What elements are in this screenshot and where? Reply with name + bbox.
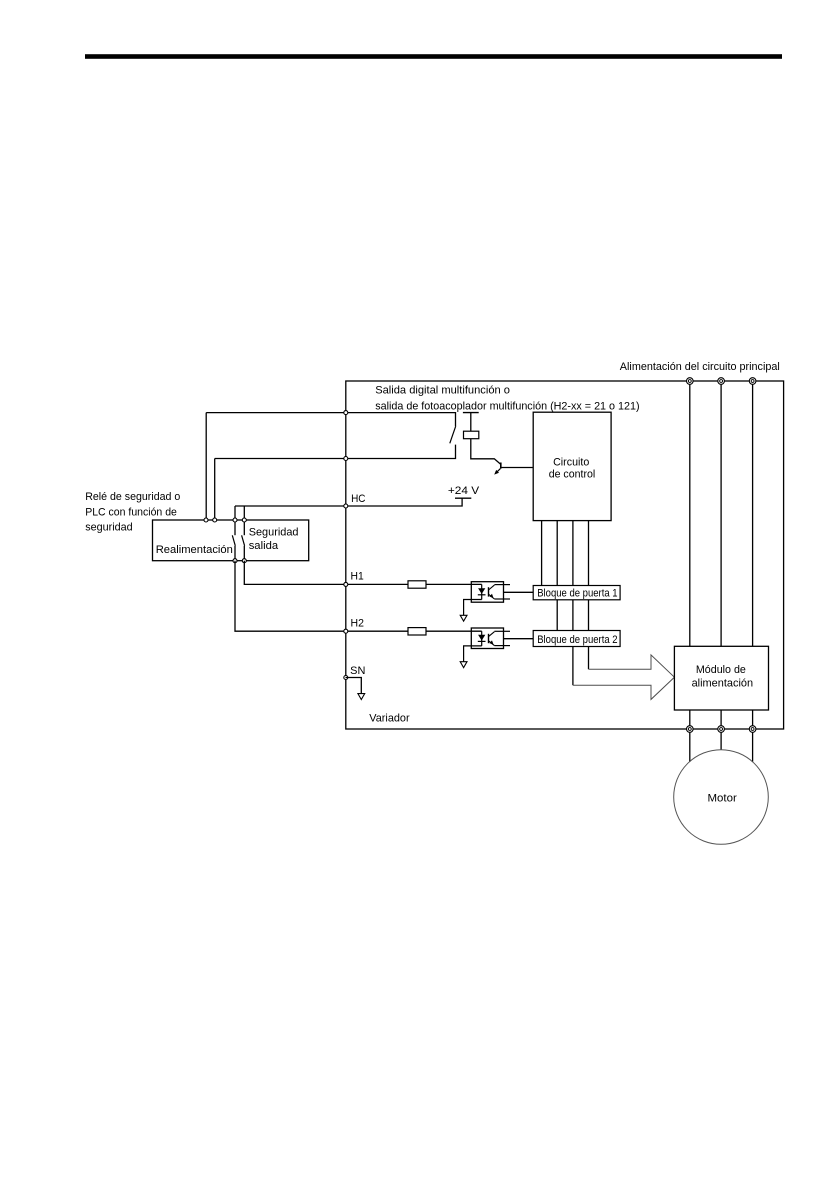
wire: V phase from power module to output terminal	[720, 710, 722, 729]
node: contact 1 top terminal	[233, 518, 237, 522]
power module: Módulo de alimentación	[674, 646, 768, 710]
wire: V phase to motor	[720, 732, 722, 750]
wire: U1 LED cathode to ground	[464, 600, 482, 616]
node SN	[344, 676, 348, 680]
terminal U (motor output)	[687, 726, 694, 733]
terminal R (main circuit input)	[687, 378, 694, 385]
optocoupler U2 phototransistor	[489, 632, 495, 646]
ground (SN)	[358, 694, 365, 700]
wire: contact 2 to H1 input	[244, 561, 345, 585]
svg-text:seguridad: seguridad	[85, 522, 133, 534]
terminal T (main circuit input)	[749, 378, 756, 385]
pin: U2 collector stub	[494, 630, 510, 632]
safety contact 2 lower lead	[243, 546, 245, 561]
block arrow (gate drive to power module)	[573, 655, 675, 700]
optocoupler U2 LED	[478, 631, 486, 646]
svg-text:Realimentación: Realimentación	[156, 544, 233, 556]
safety contact 2 (upper lead inside box)	[243, 520, 245, 535]
svg-text:Variador: Variador	[369, 712, 410, 724]
wire: relay output top run (node A to contact)	[206, 413, 455, 427]
resistor R1 (H1 input)	[408, 581, 426, 588]
wire: SN to ground	[346, 678, 362, 694]
safety relay box	[153, 520, 309, 561]
wire: control signal 2 (upper)	[556, 521, 558, 586]
svg-text:alimentación: alimentación	[692, 677, 754, 689]
wire: U2 output to gate block 2	[504, 638, 534, 640]
svg-text:+24 V: +24 V	[448, 485, 480, 497]
wire: R phase drop from input terminal to power module	[689, 381, 691, 646]
node H1	[344, 582, 348, 586]
wire: U phase from power module to output terminal	[689, 710, 691, 729]
wire: driver base to control circuit	[501, 467, 533, 469]
svg-text:H1: H1	[351, 570, 364, 582]
svg-text:PLC con función de: PLC con función de	[85, 506, 177, 518]
safety contact 1 blade	[232, 535, 235, 546]
node: feedback terminal 1	[204, 518, 208, 522]
ground (U2 emitter ground)	[460, 662, 467, 668]
pin: U2 emitter stub	[494, 645, 510, 647]
safety contact 1 (upper lead inside box)	[234, 520, 236, 535]
svg-text:de control: de control	[549, 469, 596, 481]
node H2	[344, 629, 348, 633]
wire: S phase drop from input terminal to power module	[720, 381, 722, 646]
wire: U1 output to gate block 1	[504, 591, 534, 593]
wire: safety contact 1 top lead	[234, 506, 236, 520]
wire: gate signal to arrow top	[588, 647, 590, 670]
node A (relay output top)	[344, 411, 348, 415]
wire: gate signal to arrow bottom	[572, 647, 574, 686]
node: feedback terminal 2	[213, 518, 217, 522]
gate block 1: Bloque de puerta 1	[533, 586, 620, 600]
svg-text:Salida digital multifunción o: Salida digital multifunción o	[375, 384, 510, 396]
+24V supply terminal bar	[455, 497, 471, 499]
relay contact (multi-function output)	[450, 426, 456, 443]
terminal V (motor output)	[718, 726, 725, 733]
pin: U1 emitter stub	[494, 598, 510, 600]
wire: coil top lead	[470, 413, 472, 432]
transistor Q1 emitter arrow	[494, 469, 500, 475]
wire: H2 run inside inverter	[346, 630, 482, 632]
svg-text:Bloque de puerta 1: Bloque de puerta 1	[537, 587, 617, 599]
svg-text:Seguridad: Seguridad	[249, 527, 299, 539]
node B (relay output bottom)	[344, 457, 348, 461]
node: contact 2 top terminal	[242, 518, 246, 522]
svg-text:Alimentación del circuito prin: Alimentación del circuito principal	[620, 361, 780, 373]
svg-text:Motor: Motor	[708, 792, 738, 804]
wire: contact 1 to H2 input	[235, 561, 346, 632]
wire: HC to +24V riser	[346, 498, 463, 506]
node: contact 1 bottom terminal	[233, 559, 237, 563]
node HC	[344, 504, 348, 508]
wire: feedback drop left (node A to safety relay)	[205, 413, 207, 520]
wire: control signal 2 (between gate blocks)	[556, 600, 558, 631]
wire: U2 LED cathode to ground	[464, 646, 482, 662]
wire: W phase from power module to output terminal	[752, 710, 754, 729]
transistor Q1 driver bar	[500, 463, 502, 469]
resistor R2 (H2 input)	[408, 628, 426, 635]
wire: relay output bottom run (contact to node B)	[215, 445, 456, 459]
svg-text:salida de fotoacoplador multif: salida de fotoacoplador multifunción (H2…	[375, 400, 640, 412]
optocoupler U2 body	[471, 628, 503, 649]
wire: W phase to motor	[752, 732, 754, 762]
relay coil	[464, 431, 479, 439]
gate block 2: Bloque de puerta 2	[533, 631, 620, 647]
safety contact 1 lower lead	[234, 546, 236, 561]
wire: control signal 4 (between gate blocks)	[588, 600, 590, 631]
safety contact 2 blade	[242, 535, 245, 546]
label: Salida digital multifunción (two lines)	[375, 384, 640, 412]
pin: U1 collector stub	[494, 584, 510, 586]
relay coil supply bar	[463, 412, 479, 414]
wire: feedback drop right (node B to safety relay)	[214, 459, 216, 521]
wire: H1 run inside inverter	[346, 583, 482, 585]
svg-text:Módulo de: Módulo de	[696, 664, 746, 676]
wire: control signal 4 (upper)	[588, 521, 590, 586]
wire: HC run to safety contacts	[235, 505, 346, 507]
inverter enclosure (Variador)	[346, 381, 784, 729]
wire: control signal 3 (between gate blocks)	[572, 600, 574, 631]
optocoupler U1 body	[471, 582, 503, 603]
label: Relé de seguridad o PLC con función de seguridad	[85, 491, 180, 534]
svg-text:SN: SN	[350, 665, 365, 677]
svg-text:Bloque de puerta 2: Bloque de puerta 2	[537, 634, 617, 646]
ground (U1 emitter ground)	[460, 615, 467, 621]
wire: control signal 1 to gate block 1	[541, 521, 543, 586]
terminal W (motor output)	[749, 726, 756, 733]
motor M1	[674, 750, 769, 845]
node: contact 2 bottom terminal	[242, 559, 246, 563]
optocoupler U1 LED	[478, 584, 486, 599]
wire: safety contact 2 top lead	[243, 506, 245, 520]
terminal S (main circuit input)	[718, 378, 725, 385]
wire: control signal 3 (upper)	[572, 521, 574, 586]
optocoupler U1 phototransistor	[489, 585, 495, 599]
svg-text:salida: salida	[249, 540, 279, 552]
wire: T phase drop from input terminal to power module	[752, 381, 754, 646]
op-amp/control block: Circuito de control	[533, 412, 611, 520]
svg-text:HC: HC	[351, 493, 366, 505]
wire: U phase to motor	[689, 732, 691, 762]
svg-text:H2: H2	[351, 618, 364, 630]
svg-text:Relé de seguridad o: Relé de seguridad o	[85, 491, 180, 503]
svg-text:Circuito: Circuito	[553, 457, 589, 469]
wire: coil bottom lead to driver	[471, 439, 501, 465]
